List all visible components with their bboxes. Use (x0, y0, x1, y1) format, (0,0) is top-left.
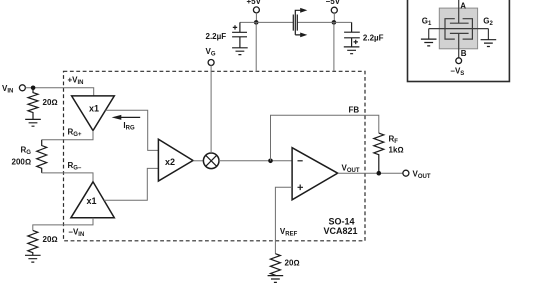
dashed boundary of VCA821 (SO-14 package) (64, 71, 366, 241)
wire +5V supply feed into package (255, 22, 257, 71)
ground (VIN termination) (25, 119, 41, 126)
svg-text:x2: x2 (165, 157, 175, 167)
amplifier x2 (158, 139, 193, 181)
ground (-5V cap) (344, 47, 360, 54)
wire x1 bottom output to x2 lower input (104, 168, 158, 200)
terminal VIN (19, 85, 25, 91)
ground (+5V cap) (232, 48, 248, 55)
wire multiplier to op-amp inverting input (219, 160, 292, 162)
svg-text:x1: x1 (89, 103, 99, 113)
wire x1 top output to x2 upper input (106, 110, 159, 150)
op-amp plus sign (298, 185, 304, 191)
resistor RG 200ohm (37, 140, 47, 173)
svg-text:+5V: +5V (247, 0, 262, 6)
node +5V rail junction (254, 20, 259, 25)
svg-text:x1: x1 (87, 196, 97, 206)
wire -5V terminal to rail (333, 13, 335, 22)
svg-text:1kΩ: 1kΩ (389, 146, 404, 155)
wire -5V supply feed into package (333, 22, 335, 71)
svg-text:VIN: VIN (2, 84, 13, 95)
package detail box (408, 0, 510, 82)
svg-text:IRG: IRG (123, 121, 135, 132)
svg-text:B: B (461, 49, 467, 58)
svg-text:20Ω: 20Ω (285, 259, 300, 268)
svg-text:–5V: –5V (326, 0, 341, 6)
svg-text:20Ω: 20Ω (43, 235, 58, 244)
wire x1 bottom to -VIN node (33, 218, 93, 231)
svg-text:A: A (460, 1, 466, 10)
resistor 20ohm (VIN termination) (28, 88, 38, 120)
wire +5V terminal to rail (255, 13, 257, 23)
wire x2 output to multiplier (193, 160, 204, 162)
wire x1 top apex to RG+ node (42, 131, 93, 140)
buffer x1 (bottom) (71, 182, 114, 218)
svg-text:2.2µF: 2.2µF (206, 32, 227, 41)
wire op-amp output to VOUT terminal (338, 172, 403, 174)
capacitor 2.2uF (-5V) (344, 22, 360, 47)
svg-text:FB: FB (349, 106, 360, 115)
bypass capacitor across supplies (293, 15, 297, 31)
gray die region (439, 8, 477, 49)
polarity + (+5V cap) (233, 25, 237, 29)
terminal -5V (331, 7, 337, 13)
wire G1 to ground (428, 29, 430, 39)
svg-text:RG–: RG– (68, 161, 82, 172)
wire supply rail (240, 21, 352, 23)
node FB / inverting input junction (268, 159, 273, 164)
svg-text:VG: VG (206, 47, 216, 58)
svg-text:200Ω: 200Ω (12, 158, 32, 167)
resistor RF 1kohm (374, 133, 384, 173)
svg-text:RF: RF (389, 135, 399, 146)
ground (G2) (481, 40, 497, 47)
wire VIN terminal to +VIN buffer input (25, 88, 93, 96)
op-amp U1 (output amplifier) (292, 148, 338, 200)
svg-text:+VIN: +VIN (68, 76, 84, 87)
terminal VOUT (403, 170, 409, 176)
node -5V rail junction (332, 20, 337, 25)
ground (-VIN termination) (25, 255, 41, 262)
resistor 20ohm (-VIN termination) (28, 230, 38, 255)
svg-text:VCA821: VCA821 (324, 226, 358, 236)
terminal -VS (456, 58, 462, 64)
svg-text:SO-14: SO-14 (329, 217, 355, 227)
ground (G1) (421, 39, 437, 46)
comb structure (gain element) (450, 23, 469, 58)
buffer x1 (top) (72, 96, 115, 131)
svg-text:20Ω: 20Ω (43, 98, 58, 107)
node VIN / 20ohm junction (31, 86, 36, 91)
node VOUT / RF junction (377, 171, 382, 176)
wire RG- node to x1 bottom apex (42, 173, 93, 182)
terminal +5V (253, 7, 259, 13)
svg-text:VOUT: VOUT (342, 164, 360, 175)
wire G2 to ground (487, 29, 489, 40)
wire feedback FB loop (271, 115, 379, 161)
wire G1-G2 gate line (429, 28, 489, 30)
capacitor 2.2uF (+5V) (232, 22, 247, 47)
resistor 20ohm (VREF) (270, 254, 280, 276)
wire VG to multiplier (210, 65, 212, 153)
svg-text:VOUT: VOUT (413, 170, 431, 181)
polarity + (-5V cap) (354, 40, 358, 44)
svg-text:RG: RG (21, 146, 32, 157)
multiplier (variable gain cell) (203, 153, 219, 169)
svg-text:RG+: RG+ (68, 128, 82, 139)
wire A to comb (458, 0, 460, 23)
current arrow IRG (121, 116, 140, 118)
svg-text:–VIN: –VIN (69, 228, 85, 239)
op-amp minus sign (298, 160, 303, 162)
svg-text:2.2µF: 2.2µF (363, 33, 384, 42)
terminal VG (208, 60, 214, 66)
ground (VREF) (268, 276, 284, 283)
wire VREF to op-amp non-inverting input (275, 187, 292, 254)
svg-text:VREF: VREF (280, 227, 298, 238)
